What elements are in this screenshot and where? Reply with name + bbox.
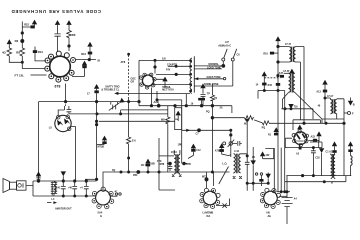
svg-text:+4: +4 <box>80 186 83 189</box>
svg-text:17: 17 <box>87 92 90 95</box>
heater drop with cap x=170 <box>157 160 172 171</box>
tube V5 audio <box>200 188 220 218</box>
speaker <box>3 179 26 193</box>
rectifier filament winding <box>348 141 353 175</box>
svg-text:A13: A13 <box>316 91 321 94</box>
svg-text:3A: 3A <box>220 107 223 110</box>
grid coupling arrow x=262.6 <box>260 151 274 158</box>
svg-text:F: F <box>352 111 354 115</box>
svg-text:M78: M78 <box>160 163 165 166</box>
wire to node I5 <box>75 58 100 62</box>
svg-text:Ab: Ab <box>268 214 272 218</box>
label A2B on bus A2 <box>154 100 161 107</box>
svg-text:AT8: AT8 <box>121 60 126 64</box>
svg-text:C1 A1: C1 A1 <box>326 150 333 153</box>
control box B2 <box>175 100 182 164</box>
svg-text:R16: R16 <box>263 52 268 55</box>
tuning gang dashed link <box>128 53 130 137</box>
svg-text:3Q: 3Q <box>112 169 115 172</box>
diode output wire y=113.9 <box>69 113 168 115</box>
wire rail E y=130.3 with arrow <box>182 129 232 136</box>
svg-text:A2B: A2B <box>154 100 159 104</box>
svg-text:A7B: A7B <box>215 149 220 152</box>
svg-text:M73: M73 <box>202 176 207 179</box>
svg-text:G: G <box>100 214 102 218</box>
svg-text:B: B <box>353 103 355 107</box>
capacitor C22 stub with arrow <box>22 20 37 29</box>
speaker plug drop through battery <box>286 176 288 224</box>
resistor E-6 x=128.6 <box>127 137 137 172</box>
speaker to rails <box>27 181 97 196</box>
svg-text:I5: I5 <box>98 58 101 62</box>
svg-text:C7: C7 <box>196 132 200 135</box>
resistor R6 stub above tube V1 <box>66 20 76 51</box>
svg-text:FT 12L: FT 12L <box>15 73 25 77</box>
svg-text:A7 AT: A7 AT <box>283 70 290 73</box>
capacitor C13 stub line x=35 <box>33 47 46 61</box>
svg-text:T9: T9 <box>214 97 217 100</box>
tone labels <box>204 63 221 86</box>
capacitor stubs under T1 <box>200 83 214 172</box>
ground rail y=147.6 <box>285 145 322 150</box>
vertical feeder x=38.5 <box>38 102 40 181</box>
svg-text:1B 1B: 1B 1B <box>141 164 148 167</box>
battery feed lines <box>277 91 291 193</box>
node above tube V5 <box>202 172 208 189</box>
svg-text:C18: C18 <box>315 157 320 160</box>
svg-text:GOES TONE: GOES TONE <box>207 76 222 79</box>
grid wire into tube V5 <box>214 167 229 187</box>
cap above rail x=38.5 <box>36 171 41 182</box>
bus wire D y=121.3 <box>99 120 175 122</box>
svg-text:LAVEMB: LAVEMB <box>203 211 214 215</box>
power transformer T5 <box>326 141 338 175</box>
electrolytic cap 2 <box>68 180 77 197</box>
svg-text:AMATOR OUT: AMATOR OUT <box>55 207 72 210</box>
lower right bus y=108.8 <box>281 99 313 119</box>
wire node line x=22.3 with resistor R8 <box>15 22 46 69</box>
svg-text:PQ: PQ <box>206 111 210 114</box>
svg-text:+B(M)+O+C: +B(M)+O+C <box>218 44 231 47</box>
svg-text:4B: 4B <box>252 156 255 159</box>
svg-text:DA: DA <box>207 214 211 218</box>
long resistive link to right <box>211 116 345 130</box>
tube V7 FM detector <box>292 130 317 147</box>
svg-text:& TROUBLE CL: & TROUBLE CL <box>101 89 119 92</box>
tube V1 6T8 <box>45 51 76 89</box>
IF transformer T3 <box>283 69 344 119</box>
svg-text:C6: C6 <box>237 54 241 57</box>
wire y=119 far right <box>321 119 323 123</box>
cap arrow x=148 <box>141 159 151 172</box>
bus wire A2 y=105.7 <box>139 98 232 113</box>
svg-text:19: 19 <box>191 103 194 106</box>
column x=313.4 with capacitor <box>311 148 316 176</box>
wires from V2 plate <box>156 74 190 79</box>
volume pot x=104 <box>97 136 108 149</box>
svg-text:TP: TP <box>207 93 210 96</box>
svg-text:CODE VALUES ARE UNCHANGED: CODE VALUES ARE UNCHANGED <box>11 9 101 14</box>
svg-text:+46: +46 <box>68 186 73 189</box>
svg-text:A2: A2 <box>296 152 300 155</box>
oscillator transformer T6 <box>222 150 247 179</box>
svg-text:A7: A7 <box>115 190 119 193</box>
bus wire B y=109.9 <box>121 110 168 114</box>
wire y=99.9 to control box <box>157 99 182 101</box>
svg-text:MCTTYSU: MCTTYSU <box>162 89 174 92</box>
svg-text:1/8: 1/8 <box>162 56 166 60</box>
tone switch contact wires <box>194 64 233 86</box>
wire x=155 into tube V2 <box>154 59 156 73</box>
node rail y=90.5 <box>258 89 285 98</box>
tube V6 output <box>260 188 280 218</box>
bus wire A y=101.6 <box>39 101 140 103</box>
node FT 12L wire <box>15 73 47 77</box>
svg-text:MT3B: MT3B <box>98 146 105 149</box>
svg-text:T16: T16 <box>294 105 299 108</box>
padder capacitor column x=247.2 <box>245 120 250 191</box>
svg-text:49: 49 <box>318 104 321 107</box>
filter choke L4 <box>51 181 57 201</box>
svg-text:47 47: 47 47 <box>285 43 292 46</box>
svg-text:A23: A23 <box>311 136 316 139</box>
svg-text:PQ: PQ <box>262 127 266 130</box>
arrow above tube V7 <box>297 125 302 131</box>
diode tube wiring <box>58 106 75 181</box>
T7 top tap wire <box>159 155 174 157</box>
capacitor stub below plate wire <box>72 61 87 77</box>
svg-text:FTX: FTX <box>157 160 162 163</box>
tube V4 rectifier <box>92 187 114 218</box>
tube V3 dual diode <box>49 115 71 132</box>
capacitor C2 stub above tube V1 <box>54 20 60 52</box>
title text (printed upside-down) <box>11 9 101 14</box>
svg-text:L4: L4 <box>52 198 55 201</box>
vertical x=96.6 with cap and arrow <box>87 84 99 179</box>
column x=321.6 with down arrow <box>315 148 324 176</box>
electrolytic cap 1 <box>56 171 66 197</box>
coupling box edge <box>265 148 274 192</box>
B+ node arrow cluster <box>256 71 284 90</box>
IF transformer T2 (top right) <box>278 43 304 123</box>
AC line rails bottom right <box>285 152 351 184</box>
vertical from rail E to oscillator transformer with pot <box>223 130 242 157</box>
resistor line x=167.8 <box>161 106 170 172</box>
up arrow cap x=221.7 <box>215 143 231 155</box>
AC cord with twist <box>216 199 230 208</box>
down arrow column x=253 <box>251 147 256 191</box>
pointer B with circle terminal F <box>344 98 355 116</box>
svg-text:1PB: 1PB <box>178 143 183 146</box>
up arrow cap x=193.4 <box>188 144 201 159</box>
svg-text:R8: R8 <box>16 50 20 54</box>
svg-text:R7B: R7B <box>186 163 191 166</box>
long vertical feeder x=278 with arrow <box>268 36 281 192</box>
svg-text:C12: C12 <box>196 149 201 152</box>
svg-text:R15: R15 <box>268 84 273 87</box>
left feed wires to rectifier <box>85 178 98 180</box>
svg-text:47 A7: 47 A7 <box>327 95 334 98</box>
svg-text:R1: R1 <box>268 133 272 136</box>
label PQ x=212 <box>206 97 218 114</box>
tube V2 converter <box>131 73 157 89</box>
wires around tube V7 <box>285 120 320 148</box>
svg-text:W2: W2 <box>244 122 248 125</box>
svg-text:R6: R6 <box>72 33 76 37</box>
svg-text:SOME-TONE: SOME-TONE <box>204 83 219 86</box>
svg-text:LOUD TONE: LOUD TONE <box>207 66 221 69</box>
variable capacitor VC1 <box>109 98 125 111</box>
text SAFTY TRIO rows <box>101 85 119 91</box>
arrow up x=319 <box>310 131 322 147</box>
svg-text:A 42: A 42 <box>234 150 240 153</box>
electrolytic cap 3 <box>80 180 89 197</box>
svg-text:L.O.: L.O. <box>222 161 227 165</box>
switch S1 levers <box>218 41 240 86</box>
svg-text:R22: R22 <box>24 23 29 27</box>
svg-text:4Ω: 4Ω <box>2 50 7 54</box>
wire top of converter C8 <box>138 56 190 105</box>
small caps between tubes <box>247 173 271 187</box>
svg-text:P.IV: P.IV <box>166 69 171 72</box>
arrow node right of V2 <box>162 64 177 92</box>
vertical x=159 <box>150 138 175 190</box>
bottom caption with arrow <box>47 201 72 210</box>
svg-text:R50: R50 <box>133 174 138 177</box>
svg-text:14: 14 <box>256 83 259 86</box>
svg-text:A4: A4 <box>294 198 298 201</box>
wire tube V1 bottom to bus <box>64 84 71 114</box>
svg-text:+41: +41 <box>56 186 61 189</box>
FM detector transformer T4 <box>316 80 344 176</box>
svg-text:GR: GR <box>131 80 135 83</box>
IF transformer T1 coil <box>185 56 194 107</box>
resistor 4ohm with arrow terminal <box>2 39 22 62</box>
battery symbol <box>279 196 298 206</box>
svg-text:10Z: 10Z <box>265 154 270 157</box>
svg-text:R12: R12 <box>81 52 86 56</box>
svg-text:6T8: 6T8 <box>55 85 61 89</box>
svg-text:H6: H6 <box>267 211 271 215</box>
capacitor C16 stub left <box>263 52 278 56</box>
svg-text:R3: R3 <box>15 39 19 43</box>
long heater rail <box>103 169 230 189</box>
IF transformer T7 bottom left <box>160 150 191 177</box>
svg-text:COUPTB: COUPTB <box>167 64 177 67</box>
V2 cathode drops <box>150 88 158 107</box>
rectifier plate caps <box>110 190 121 196</box>
svg-text:R13: R13 <box>38 50 43 54</box>
svg-text:5U4: 5U4 <box>98 210 103 214</box>
svg-text:E-6: E-6 <box>132 140 136 143</box>
svg-text:L5: L5 <box>49 126 53 130</box>
capacitor C14 stub with arrow <box>81 42 93 60</box>
capacitor stub left of V7 <box>268 127 279 136</box>
svg-text:B: B <box>331 181 333 185</box>
svg-text:10B: 10B <box>150 163 155 166</box>
